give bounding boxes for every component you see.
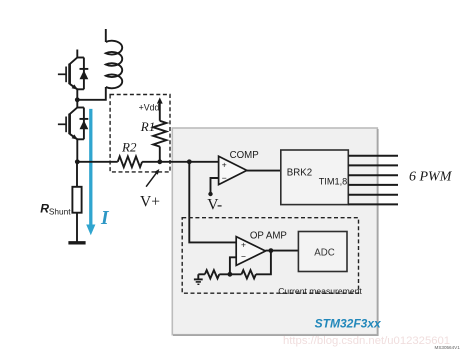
svg-text:COMP: COMP — [230, 150, 259, 161]
node V- — [208, 192, 212, 196]
wire RShunt to ground — [76, 213, 78, 242]
op-amp OP AMP — [236, 230, 287, 265]
node feedback — [228, 272, 233, 277]
svg-text:MS30564V1: MS30564V1 — [435, 345, 461, 350]
svg-text:TIM1,8: TIM1,8 — [319, 177, 348, 187]
6 PWM outputs — [348, 156, 398, 205]
wire Rg to Rf — [219, 273, 241, 275]
wire ground to Rg — [198, 273, 205, 275]
svg-text:R2: R2 — [121, 139, 137, 154]
wire op-amp minus input — [230, 257, 236, 274]
svg-text:V-: V- — [207, 196, 222, 213]
diode D1 — [77, 58, 88, 90]
node A — [75, 97, 80, 102]
ADC block — [298, 232, 347, 272]
wire R2 to comparator input — [142, 161, 219, 163]
supply +Vdd — [139, 97, 163, 120]
ground op-amp — [194, 274, 203, 284]
op-amp COMP — [219, 150, 259, 185]
sense network dashed box — [110, 95, 170, 172]
wire Q2 emitter to node B — [76, 139, 78, 162]
node op-amp output — [269, 248, 274, 253]
svg-text:ADC: ADC — [314, 247, 334, 258]
transistor Q1 — [58, 50, 78, 90]
svg-text:OP AMP: OP AMP — [250, 230, 287, 241]
ground — [68, 241, 85, 244]
diode D2 — [77, 108, 88, 140]
svg-text:−: − — [222, 173, 227, 183]
node V+ — [157, 159, 162, 164]
wire Rf to output — [256, 251, 271, 275]
wire node B to R2 — [77, 161, 117, 163]
svg-text:Current measurement: Current measurement — [278, 286, 362, 296]
wire op-amp output to ADC — [266, 250, 299, 252]
svg-text:+Vdd: +Vdd — [139, 102, 160, 112]
svg-text:R1: R1 — [140, 119, 155, 134]
current measurement dashed box — [182, 218, 358, 294]
wire node C down to op-amp — [189, 162, 236, 243]
svg-text:BRK2: BRK2 — [287, 168, 312, 179]
svg-text:I: I — [100, 208, 110, 229]
V+ pointer arrow — [140, 169, 160, 211]
svg-text:V+: V+ — [140, 194, 160, 211]
svg-text:+: + — [222, 159, 227, 169]
wire comparator minus input to V- — [211, 178, 219, 193]
resistor R2 — [118, 139, 142, 167]
inductor L1 — [77, 29, 122, 100]
resistor Rf — [242, 270, 256, 278]
transistor Q2 — [58, 100, 78, 140]
svg-text:6 PWM: 6 PWM — [409, 169, 453, 184]
resistor RShunt — [72, 187, 81, 213]
wire comparator output to BRK2 — [247, 170, 281, 172]
svg-text:STM32F3xx: STM32F3xx — [315, 317, 382, 331]
svg-text:https://blog.csdn.net/u0123256: https://blog.csdn.net/u012325601 — [283, 335, 450, 347]
resistor R1 — [140, 119, 167, 162]
svg-text:R: R — [40, 202, 49, 216]
block BRK2 TIM1,8 — [281, 150, 349, 205]
MCU block STM32F3xx — [172, 128, 377, 335]
svg-text:−: − — [241, 251, 246, 261]
node C branch to op-amp — [187, 159, 192, 164]
current arrow I — [86, 109, 110, 235]
wire node B down to RShunt — [76, 162, 78, 187]
svg-text:+: + — [241, 240, 246, 250]
resistor Rg — [205, 270, 219, 278]
svg-text:Shunt: Shunt — [49, 207, 71, 217]
node B — [75, 159, 80, 164]
wire Q1 emitter to node A — [76, 89, 78, 100]
